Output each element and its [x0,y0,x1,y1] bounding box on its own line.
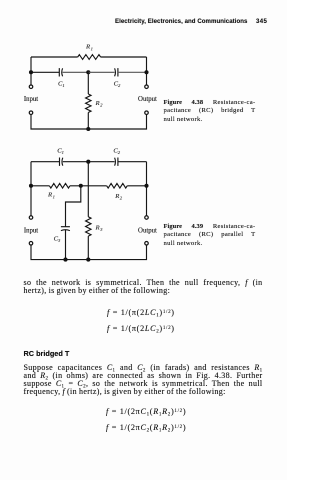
svg-text:R: R [85,44,90,51]
capacitor C2 [115,158,118,166]
node: top-center junction [86,160,90,164]
svg-text:2: 2 [118,150,121,155]
svg-text:Input: Input [24,96,38,103]
svg-text:Output: Output [138,96,157,103]
label R1 [47,192,55,200]
label C3 [54,235,61,243]
wire: C3 bottom lead [65,230,67,260]
wire: top wire center to C2 [88,161,114,163]
svg-text:Input: Input [24,228,38,235]
svg-text:Output: Output [138,228,157,235]
terminal: output top [145,216,149,220]
body paragraph 1 [24,278,263,287]
section heading [24,349,70,358]
capacitor C1 [59,68,62,76]
terminal: output top [145,85,149,89]
label C1 [58,81,65,89]
wire: bottom rail [31,245,147,259]
svg-text:3: 3 [100,227,103,232]
svg-text:2: 2 [118,83,121,88]
capacitor C1 [60,158,63,166]
wire: mid wire right of R2 [127,185,146,187]
resistor R1 [49,184,70,189]
label Input [24,228,38,235]
wire: mid wire C1 to center [63,71,89,73]
formula f = 1/(pi(2LC1)^1/2) [107,308,175,317]
resistor R2 [107,184,128,189]
resistor R2 [86,94,91,113]
svg-text:1: 1 [91,46,93,51]
svg-text:1: 1 [53,194,55,199]
body paragraph 2 [24,363,263,372]
label C2 [114,81,121,89]
svg-text:2: 2 [120,196,123,201]
capacitor C2 [115,68,118,76]
label C1 [57,147,64,155]
svg-text:R: R [114,193,119,200]
label R2 [114,193,123,201]
wire: top wire right of C2 [118,161,147,163]
wire: mid wire left segment [31,185,49,187]
label Input [24,96,38,103]
terminal: input top [29,85,33,89]
wire: R2 top lead [87,72,89,94]
node: mid-right junction [144,184,148,188]
formula f = 1/(2piC1(R1R2)^1/2) [106,407,186,416]
svg-text:R: R [95,100,100,107]
capacitor C3 [61,227,70,231]
terminal: output bottom [145,111,149,115]
svg-text:1: 1 [62,83,64,88]
wire: mid wire center to C2 [88,71,114,73]
wire: mid wire left of C1 [31,71,59,73]
caption Figure 4.39 [164,223,256,249]
page number 345 [256,18,267,25]
formula f = 1/(pi(2LC2)^1/2) [107,324,175,333]
wire: right rail [146,162,148,216]
svg-text:R: R [95,225,100,232]
wire: left rail [30,162,32,216]
wire: top bridge left segment [31,56,78,58]
node: mid junction (R1/R2 tap) [79,184,83,188]
wire: center vertical through crossing to R3 [87,162,89,217]
running head [115,18,247,25]
svg-text:2: 2 [100,103,103,108]
label Output [138,228,157,235]
node: mid-center junction [86,70,90,74]
label Output [138,96,157,103]
node: C3 bottom junction [63,258,67,262]
label C2 [113,147,120,155]
wire: bottom rail [31,115,147,129]
wire: mid wire R1 to R2 (through crossing) [70,185,107,187]
label R3 [95,225,104,233]
wire: R2 bottom lead [87,113,89,130]
wire: top wire left of C1 [31,161,60,163]
caption Figure 4.38 [164,99,256,125]
wire: R3 bottom lead [87,236,89,260]
terminal: output bottom [145,242,149,246]
node: mid-right junction [144,70,148,74]
wire: top bridge right segment [101,56,147,58]
label R1 [85,44,93,52]
wire: jog from mid tap down-left to C3 [66,186,81,227]
terminal: input bottom [29,111,33,115]
wire: left rail [30,57,32,85]
resistor R3 [86,217,91,236]
terminal: input bottom [29,242,33,246]
label R2 [95,100,104,108]
svg-text:R: R [47,192,52,199]
wire: right rail [146,57,148,85]
wire: top wire C1 to center [63,161,89,163]
node: R3 bottom junction [86,258,90,262]
node: R2 bottom junction [86,127,90,131]
node: mid-left junction [29,70,33,74]
resistor R1 [78,55,101,60]
terminal: input top [29,216,33,220]
node: mid-left junction [29,184,33,188]
formula f = 1/(2piC2(R1R2)^1/2) [106,423,186,432]
svg-text:1: 1 [62,150,64,155]
svg-text:3: 3 [58,238,61,243]
wire: mid wire right of C2 [118,71,147,73]
